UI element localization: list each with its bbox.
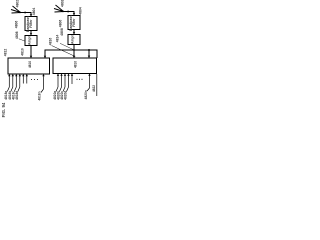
- svg-text:4804: 4804: [78, 7, 82, 15]
- SW2 output pin 2 with arrow, lead and label: [57, 74, 63, 100]
- svg-text:4806: 4806: [14, 21, 18, 29]
- antenna ANT2: [54, 5, 64, 12]
- svg-text:Ampl: Ampl: [71, 35, 75, 44]
- svg-text:Filter: Filter: [29, 19, 33, 28]
- svg-text:4810: 4810: [28, 61, 32, 68]
- svg-text:Filter: Filter: [72, 18, 76, 27]
- svg-text:4820d: 4820d: [64, 91, 68, 100]
- svg-text:4806: 4806: [58, 20, 62, 28]
- SW1 output pin 2 with arrow, lead and label: [8, 74, 14, 100]
- wire antenna ANT1 to node, with direction arrow: [21, 11, 33, 16]
- box U3 filter (right chain box 1): [68, 16, 80, 30]
- SW1 output pin 1 with arrow, lead and label: [4, 74, 10, 100]
- SW2 output pin 1 with arrow, lead and label: [53, 74, 59, 100]
- junction dot on bus: [88, 49, 90, 51]
- svg-text:4814: 4814: [55, 35, 59, 43]
- SW2 output pin 4 with arrow, lead and label: [64, 74, 70, 100]
- box SW1 (left wide switch box): [8, 58, 50, 74]
- svg-text:FIG. 94: FIG. 94: [1, 102, 6, 117]
- svg-text:4822: 4822: [92, 85, 96, 92]
- svg-text:4804: 4804: [32, 8, 36, 16]
- svg-text:4818n: 4818n: [38, 91, 42, 100]
- box U2 amplifier (left chain box 2): [25, 36, 37, 46]
- svg-text:4808: 4808: [60, 28, 64, 36]
- wire U1 to U2 with arrow: [30, 31, 32, 36]
- junction dot bus x right-chain drop: [73, 49, 75, 51]
- SW2 corner output line with label 4822: [92, 74, 97, 96]
- bus wire from bends into both switch boxes: [44, 50, 97, 58]
- SW1 output pin 4 with arrow, lead and label: [15, 74, 21, 100]
- svg-text:4812: 4812: [3, 49, 7, 57]
- SW2 output pin n with arrow, lead and label: [84, 74, 91, 100]
- label 4816 with lead line to SW2 entry: [48, 38, 75, 57]
- SW2 output pin 3 with arrow, lead and label: [60, 74, 66, 100]
- SW1 ellipsis dots: [31, 79, 38, 80]
- wire U4 down through bus node into switch SW2, arrow at end: [73, 45, 75, 59]
- wire antenna ANT2 to node, with direction arrow: [64, 10, 76, 15]
- svg-text:4810: 4810: [20, 48, 24, 56]
- SW2 output pin 5 short: [71, 74, 73, 85]
- svg-text:4802: 4802: [60, 0, 64, 7]
- SW1 output pin 3 with arrow, lead and label: [11, 74, 17, 100]
- box U1 filter (left chain box 1): [25, 17, 37, 31]
- SW1 output pin 5 short: [22, 74, 24, 84]
- wire U3 to U4 with arrow: [73, 30, 75, 35]
- SW2 ellipsis dots: [76, 79, 82, 80]
- svg-text:4802: 4802: [15, 0, 19, 7]
- antenna ANT1: [11, 6, 21, 13]
- box U4 amplifier (right chain box 2): [68, 35, 80, 45]
- bus drop with arrow into SW2: [88, 50, 90, 58]
- svg-text:Ampl: Ampl: [28, 36, 32, 45]
- wire U2 to switch SW1 with arrow: [30, 46, 32, 59]
- svg-text:4818d: 4818d: [15, 91, 19, 100]
- svg-text:4816: 4816: [48, 38, 52, 46]
- svg-text:4808: 4808: [15, 31, 19, 39]
- label 4814 with lead line to bus junction: [55, 35, 73, 50]
- svg-text:4820n: 4820n: [84, 90, 88, 99]
- SW1 output pin 6 short: [26, 74, 28, 84]
- SW1 output pin n with arrow, lead and label: [38, 74, 45, 101]
- box SW2 (right wide switch box): [53, 58, 97, 74]
- svg-text:4810: 4810: [73, 61, 77, 68]
